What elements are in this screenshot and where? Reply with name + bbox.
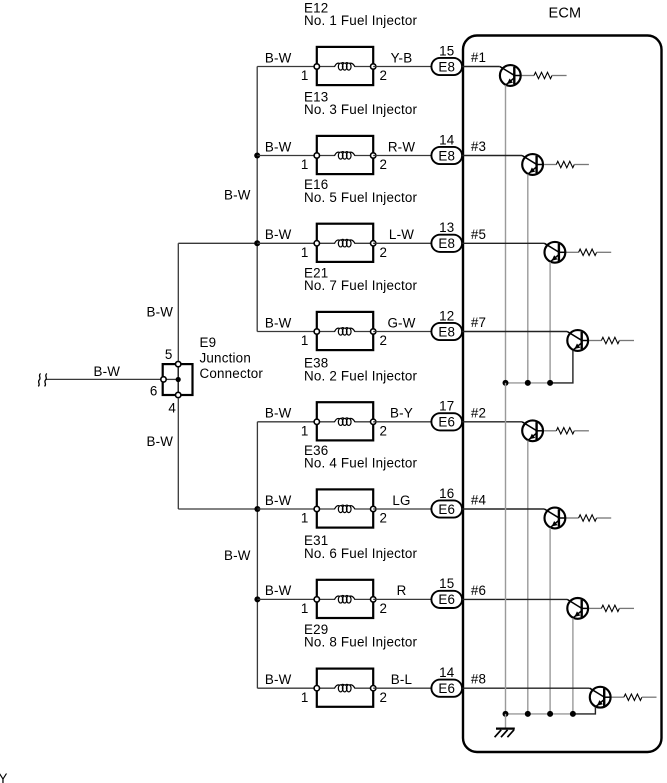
connector E8 pin 12 (row #7) [431, 308, 462, 340]
injector E38 pin 1 [301, 419, 320, 438]
collector lead and resistor (row #3) [537, 161, 589, 167]
connector E6 pin 17 (row #2) [431, 399, 462, 431]
collector lead and resistor (row #2) [537, 428, 589, 434]
svg-text:B-W: B-W [265, 672, 292, 687]
injector E13 pin 2 [371, 153, 388, 172]
node bus2-row4 [254, 506, 260, 512]
svg-text:Y: Y [0, 771, 8, 783]
svg-text:B-W: B-W [224, 548, 251, 563]
injector E36 pin 2 [371, 506, 388, 525]
injector coil E38 [335, 418, 355, 426]
svg-text:2: 2 [380, 423, 388, 438]
svg-text:#6: #6 [471, 583, 486, 598]
injector E38 pin 2 [371, 419, 388, 438]
wire ECM internal #5 net to transistor base [462, 227, 544, 244]
transistor driver #3 [522, 154, 543, 175]
node ground bus emitter #2 [525, 711, 531, 717]
svg-text:B-L: B-L [391, 672, 412, 687]
svg-text:E6: E6 [438, 502, 455, 517]
svg-text:No. 7 Fuel Injector: No. 7 Fuel Injector [304, 278, 418, 293]
svg-text:#3: #3 [471, 139, 486, 154]
connector E8 pin 15 (row #1) [431, 43, 462, 75]
wire ECM internal #4 net to transistor base [462, 493, 544, 510]
fuel injector E21 (No. 7 Fuel Injector) [304, 265, 418, 350]
node ground bus emitter #6 [570, 711, 576, 717]
ground [495, 729, 515, 738]
wire ECM internal #2 net to transistor base [462, 405, 522, 422]
wire ECM internal #8 net to transistor base [462, 672, 590, 689]
injector E31 pin 1 [301, 597, 320, 616]
svg-text:17: 17 [439, 399, 454, 414]
transistor driver #7 [567, 330, 588, 351]
svg-text:B-W: B-W [265, 50, 292, 65]
injector E16 pin 2 [371, 241, 388, 260]
injector coil E36 [335, 505, 355, 513]
injector E31 pin 2 [371, 597, 388, 616]
svg-text:No. 6 Fuel Injector: No. 6 Fuel Injector [304, 546, 418, 561]
injector coil E21 [335, 328, 355, 336]
svg-text:B-W: B-W [265, 139, 292, 154]
svg-text:14: 14 [439, 132, 455, 147]
svg-text:G-W: G-W [387, 315, 415, 330]
wire L-W injector pin 2 to ECM connector E8 (row #5) [373, 227, 431, 243]
wire B-W bus to injector pin 1 (row #5) [257, 227, 317, 243]
wire emitter #8 hook to ground bus [573, 707, 596, 714]
svg-text:B-W: B-W [265, 315, 292, 330]
injector E13 pin 1 [301, 153, 320, 172]
svg-text:B-W: B-W [224, 188, 251, 203]
wire B-W feed from harness to E9 pin 6 [46, 364, 164, 380]
collector lead and resistor (row #1) [514, 72, 566, 78]
wire B-W from E9 pin 5 up to injector bank 1 [147, 243, 179, 361]
svg-text:E6: E6 [438, 681, 455, 696]
ECM module box [463, 5, 662, 752]
svg-text:16: 16 [439, 486, 454, 501]
transistor driver #2 [522, 420, 543, 441]
svg-text:1: 1 [301, 245, 309, 260]
svg-text:#5: #5 [471, 227, 486, 242]
svg-text:ECM: ECM [549, 5, 582, 21]
wire bank1 bus down to ground bus [505, 383, 507, 714]
wire B-W bus (bank 1) [224, 67, 257, 332]
svg-text:1: 1 [301, 511, 309, 526]
injector coil E16 [335, 239, 355, 247]
wire B-W from E9 pin 4 down to injector bank 2 [147, 398, 258, 509]
wire ECM internal #6 net to transistor base [462, 583, 567, 600]
collector lead and resistor (row #4) [559, 515, 611, 521]
svg-text:E6: E6 [438, 592, 455, 607]
transistor driver #5 [544, 242, 565, 263]
wire B-Y injector pin 2 to ECM connector E6 (row #2) [373, 406, 431, 422]
injector coil E31 [335, 596, 355, 604]
wire B-W bus (bank 2) [224, 422, 257, 688]
svg-text:B-W: B-W [265, 493, 292, 508]
svg-text:1: 1 [301, 68, 309, 83]
wire ECM internal #7 net to transistor base [462, 315, 567, 332]
injector coil E13 [335, 152, 355, 160]
node bus1-row3 [254, 153, 260, 159]
svg-text:1: 1 [301, 333, 309, 348]
svg-text:Connector: Connector [200, 366, 264, 381]
svg-text:B-W: B-W [94, 364, 121, 379]
node bus1-row5 [254, 240, 260, 246]
injector E29 pin 1 [301, 686, 320, 705]
node E9 internal junction [176, 377, 181, 382]
wire R injector pin 2 to ECM connector E6 (row #6) [373, 583, 431, 599]
wire G-W injector pin 2 to ECM connector E8 (row #7) [373, 315, 431, 331]
svg-text:6: 6 [150, 383, 158, 398]
connector E8 pin 13 (row #5) [431, 220, 462, 252]
svg-text:R: R [397, 583, 407, 598]
transistor driver #8 [590, 687, 611, 708]
wire emitter #2 to ground bus [527, 441, 529, 714]
wire stub E9 pin5 to row5 feed [178, 242, 257, 244]
svg-text:No. 3 Fuel Injector: No. 3 Fuel Injector [304, 102, 418, 117]
svg-text:R-W: R-W [388, 139, 416, 154]
node bus2-row6 [254, 596, 260, 602]
svg-text:2: 2 [380, 690, 388, 705]
wire ECM internal #1 net to transistor base [462, 50, 500, 67]
injector E12 pin 2 [371, 64, 388, 83]
svg-text:5: 5 [165, 347, 173, 362]
transistor driver #6 [567, 598, 588, 619]
svg-text:B-W: B-W [265, 406, 292, 421]
wire B-W bus to injector pin 1 (row #6) [257, 583, 317, 599]
collector lead and resistor (row #5) [559, 249, 611, 255]
wire break squiggle [38, 374, 47, 387]
fuel injector E29 (No. 8 Fuel Injector) [304, 622, 418, 707]
svg-text:2: 2 [380, 511, 388, 526]
cut-off caption text Y [0, 771, 8, 783]
svg-text:E8: E8 [438, 236, 455, 251]
svg-text:2: 2 [380, 601, 388, 616]
injector E21 pin 2 [371, 329, 388, 348]
injector E21 pin 1 [301, 329, 320, 348]
wire ECM internal #3 net to transistor base [462, 139, 522, 156]
svg-text:No. 5 Fuel Injector: No. 5 Fuel Injector [304, 190, 418, 205]
svg-text:B-W: B-W [147, 304, 174, 319]
wire common emitter bus bank 1 [506, 382, 551, 384]
junction connector E9 [163, 335, 264, 395]
svg-text:4: 4 [168, 401, 176, 416]
svg-text:#7: #7 [471, 315, 486, 330]
wire ground bus bank 2 [506, 713, 573, 715]
svg-text:B-W: B-W [147, 434, 174, 449]
svg-text:B-W: B-W [265, 227, 292, 242]
E9 pin 6 [150, 377, 166, 399]
svg-text:E8: E8 [438, 59, 455, 74]
node ground bus left / ground tap [503, 711, 509, 717]
wire emitter #1 to common bus [505, 85, 507, 383]
wire B-W bus to injector pin 1 (row #3) [257, 139, 317, 155]
wire stub to ground [505, 714, 507, 728]
fuel injector E16 (No. 5 Fuel Injector) [304, 177, 418, 262]
svg-text:1: 1 [301, 423, 309, 438]
wire R-W injector pin 2 to ECM connector E8 (row #3) [373, 139, 431, 155]
injector E16 pin 1 [301, 241, 320, 260]
connector E6 pin 16 (row #4) [431, 486, 462, 518]
wire emitter #4 to ground bus [549, 528, 551, 714]
svg-text:No. 4 Fuel Injector: No. 4 Fuel Injector [304, 456, 418, 471]
wire B-W bus to injector pin 1 (row #4) [257, 493, 317, 509]
injector E12 pin 1 [301, 64, 320, 83]
injector E29 pin 2 [371, 686, 388, 705]
svg-text:14: 14 [439, 665, 455, 680]
collector lead and resistor (row #8) [604, 694, 656, 700]
injector coil E12 [335, 63, 355, 71]
svg-text:1: 1 [301, 601, 309, 616]
wire emitter #3 to common bus [527, 174, 529, 383]
collector lead and resistor (row #6) [582, 605, 634, 611]
svg-text:E6: E6 [438, 415, 455, 430]
injector coil E29 [335, 684, 355, 692]
fuel injector E36 (No. 4 Fuel Injector) [304, 443, 418, 528]
svg-text:B-W: B-W [265, 583, 292, 598]
svg-text:13: 13 [439, 220, 454, 235]
svg-text:#2: #2 [471, 405, 486, 420]
node ground bus emitter #4 [547, 711, 553, 717]
svg-text:15: 15 [439, 576, 454, 591]
svg-text:Junction: Junction [200, 351, 251, 366]
svg-text:LG: LG [392, 493, 410, 508]
connector E8 pin 14 (row #3) [431, 132, 462, 164]
svg-text:E8: E8 [438, 148, 455, 163]
E9 pin 5 [165, 347, 181, 367]
svg-text:Y-B: Y-B [391, 50, 413, 65]
svg-text:1: 1 [301, 157, 309, 172]
wire emitter #6 to ground bus [572, 618, 574, 714]
wire emitter #5 to common bus [549, 262, 551, 383]
node bus-emitter #1 [503, 380, 509, 386]
svg-text:L-W: L-W [389, 227, 414, 242]
svg-text:2: 2 [380, 245, 388, 260]
wire Y-B injector pin 2 to ECM connector E8 (row #1) [373, 50, 431, 66]
svg-text:#8: #8 [471, 672, 486, 687]
transistor driver #1 [500, 65, 521, 86]
fuel injector E13 (No. 3 Fuel Injector) [304, 89, 418, 174]
wire B-W bus to injector pin 1 (row #8) [257, 672, 317, 688]
fuel injector E12 (No. 1 Fuel Injector) [304, 0, 418, 85]
collector lead and resistor (row #7) [582, 337, 634, 343]
wire B-W bus to injector pin 1 (row #7) [257, 315, 317, 331]
wire B-L injector pin 2 to ECM connector E6 (row #8) [373, 672, 431, 688]
svg-text:E8: E8 [438, 324, 455, 339]
svg-text:No. 1 Fuel Injector: No. 1 Fuel Injector [304, 13, 418, 28]
svg-text:No. 8 Fuel Injector: No. 8 Fuel Injector [304, 635, 418, 650]
svg-text:1: 1 [301, 690, 309, 705]
node bus-emitter #3 [525, 380, 531, 386]
wire emitter #7 hook to common bus [550, 350, 573, 383]
connector E6 pin 15 (row #6) [431, 576, 462, 608]
wire B-W bus to injector pin 1 (row #2) [257, 406, 317, 422]
svg-text:#4: #4 [471, 493, 487, 508]
injector E36 pin 1 [301, 506, 320, 525]
svg-text:12: 12 [439, 308, 454, 323]
svg-text:2: 2 [380, 333, 388, 348]
node bus-emitter #5 [547, 380, 553, 386]
svg-text:15: 15 [439, 43, 454, 58]
connector E6 pin 14 (row #8) [431, 665, 462, 697]
wire LG injector pin 2 to ECM connector E6 (row #4) [373, 493, 431, 509]
wire B-W bus to injector pin 1 (row #1) [257, 50, 317, 66]
svg-text:2: 2 [380, 68, 388, 83]
fuel injector E31 (No. 6 Fuel Injector) [304, 533, 418, 618]
svg-text:No. 2 Fuel Injector: No. 2 Fuel Injector [304, 368, 418, 383]
svg-text:B-Y: B-Y [390, 406, 413, 421]
svg-text:E9: E9 [200, 335, 217, 350]
fuel injector E38 (No. 2 Fuel Injector) [304, 356, 418, 441]
svg-text:2: 2 [380, 157, 388, 172]
svg-text:#1: #1 [471, 50, 486, 65]
transistor driver #4 [544, 508, 565, 529]
E9 pin 4 [168, 392, 181, 415]
